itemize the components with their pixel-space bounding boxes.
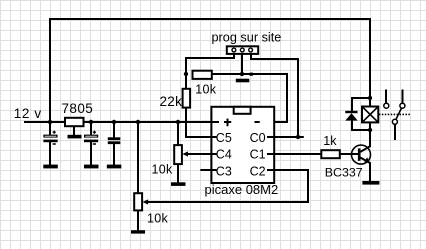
wire bottom pot top lead	[137, 122, 139, 194]
svg-text:C4: C4	[216, 148, 232, 162]
capacitor C3 ceramic	[108, 137, 121, 144]
relay coil K1	[362, 107, 378, 123]
ground under 7805	[68, 135, 82, 139]
wire cap C2 leads	[90, 122, 92, 135]
svg-text:C0: C0	[250, 131, 266, 145]
regulator U2 7805	[62, 101, 94, 126]
wire cap C1 bottom lead	[49, 142, 51, 165]
wire connector left pin to 22k	[186, 52, 234, 74]
switch SW1 contacts	[384, 103, 405, 124]
svg-text:10k: 10k	[152, 163, 174, 177]
node junction 22k-10k	[184, 72, 188, 76]
wire C0 pin line	[269, 136, 304, 138]
node square terminal	[250, 73, 253, 76]
node junction rail-cap3	[112, 120, 116, 124]
ground under connector middle pin	[236, 79, 250, 83]
node junction ground-middle pin	[240, 72, 244, 76]
relay contact dotted link	[379, 113, 411, 115]
node junction rail-lower pot	[136, 120, 140, 124]
potentiometer 10k lower	[134, 193, 168, 225]
wire 1k to transistor base	[340, 153, 358, 155]
capacitor C1 electrolytic	[43, 131, 57, 144]
wire ground net from 10k to C2	[212, 74, 287, 170]
pin - power	[255, 121, 260, 123]
wire C3 stub	[200, 169, 214, 171]
diode D1 flyback	[345, 111, 357, 121]
node junction C0-serial	[296, 135, 300, 139]
svg-text:C2: C2	[250, 164, 266, 178]
svg-text:22k: 22k	[160, 94, 183, 109]
svg-text:BC337: BC337	[325, 166, 363, 180]
wire 7805 ground pin	[73, 122, 75, 135]
wire C2 loop to bottom pot wiper	[148, 170, 309, 202]
ground under upper potentiometer	[171, 182, 186, 186]
svg-text:picaxe 08M2: picaxe 08M2	[205, 182, 279, 197]
pin + power	[224, 119, 231, 127]
ground under capacitor C2	[84, 165, 99, 169]
IC U1 picaxe 08M2	[205, 107, 279, 197]
wire switch common stub	[394, 124, 396, 140]
svg-text:10k: 10k	[195, 82, 217, 96]
wire C1 to 1k resistor	[269, 153, 322, 155]
svg-text:1k: 1k	[323, 134, 337, 148]
wire relay branch diode loop	[352, 98, 370, 111]
wire switch right stub	[402, 90, 404, 104]
svg-text:7805: 7805	[62, 101, 94, 116]
wire bottom pot bottom lead	[137, 210, 139, 231]
wire +5V rail inside box to + pin	[211, 121, 219, 123]
connector J1 prog sur site	[212, 30, 282, 53]
resistor 10k horizontal pullup	[193, 71, 217, 97]
wire +5V rail	[24, 121, 219, 123]
svg-text:C3: C3	[216, 164, 232, 178]
svg-text:10k: 10k	[147, 211, 169, 225]
node junction rail-cap2	[89, 120, 93, 124]
node junction rail-cap1	[48, 120, 52, 124]
svg-text:C1: C1	[250, 148, 266, 162]
svg-text:prog sur site: prog sur site	[212, 30, 282, 44]
ground under transistor emitter	[362, 181, 379, 185]
wire 22k top lead	[185, 74, 187, 89]
ground under capacitor C3	[107, 165, 122, 169]
wire 22k bottom to C5 pin	[186, 108, 214, 138]
wire cap C1 top lead	[49, 122, 51, 135]
wire top pot top lead	[177, 122, 179, 146]
wire relay coil bottom to transistor collector	[360, 122, 370, 152]
wire transistor emitter	[360, 158, 370, 182]
wire top pot bottom lead	[177, 164, 179, 184]
node junction rail-upper pot	[176, 120, 180, 124]
svg-text:12 v: 12 v	[14, 106, 42, 121]
svg-text:C5: C5	[216, 131, 232, 145]
wire 12V top loop rail	[50, 19, 370, 135]
wire C4 wiper line	[187, 153, 215, 155]
node junction relay bottom	[368, 128, 372, 132]
node junction relay top	[368, 96, 372, 100]
switch arm	[396, 108, 402, 120]
resistor 1k	[321, 134, 340, 158]
ground under lower potentiometer	[131, 230, 145, 233]
wire cap C3 leads	[113, 122, 115, 138]
resistor 22k	[160, 89, 191, 109]
wire connector right pin serial-out to C0	[251, 52, 298, 137]
pin stubs inside box	[211, 137, 275, 170]
potentiometer 10k upper	[152, 145, 189, 176]
capacitor C2 electrolytic	[84, 131, 98, 144]
wire connector middle pin to ground	[241, 52, 243, 76]
transistor Q1 BC337	[325, 145, 371, 179]
ground under capacitor C1	[43, 165, 58, 169]
wire switch left stub	[385, 90, 387, 104]
